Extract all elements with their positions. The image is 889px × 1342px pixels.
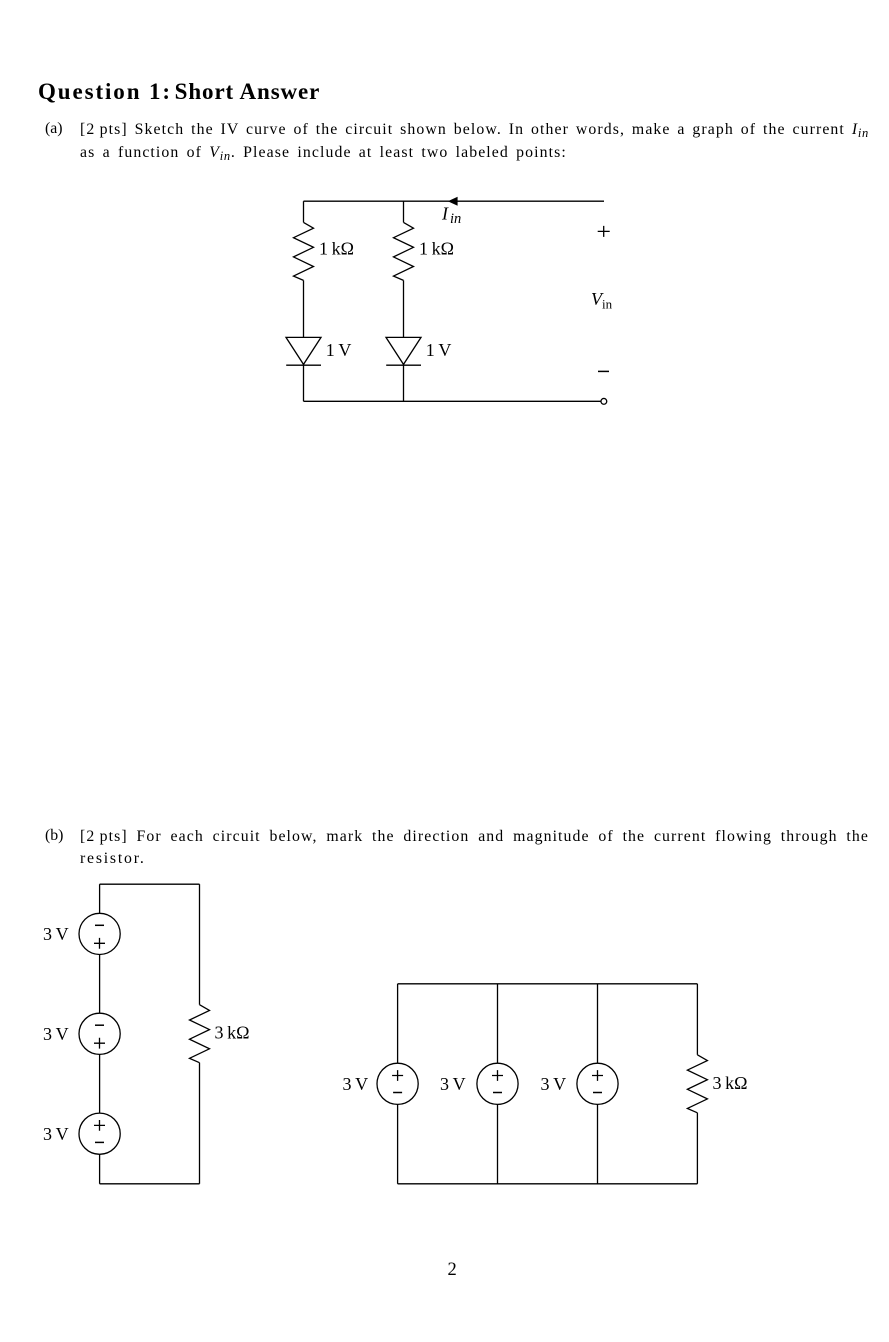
voltage source V1 circle <box>79 913 120 954</box>
wire: circuit3 branch2 upper <box>497 984 499 1063</box>
label V4 minus sign <box>393 1092 402 1094</box>
diode D1 cathode bar <box>286 364 321 366</box>
svg-text:3 kΩ: 3 kΩ <box>215 1023 250 1043</box>
item (a) label <box>45 120 63 138</box>
svg-text:Iin: Iin <box>441 204 461 228</box>
wire: circuit3 branch1 lower <box>397 1104 399 1183</box>
wire: circuit1 left branch upper stub <box>303 201 305 222</box>
wire: circuit1 left branch middle <box>303 280 305 337</box>
wire: circuit2 between V1 V2 <box>99 955 101 1014</box>
voltage source V6 circle <box>577 1063 618 1104</box>
svg-text:3 V: 3 V <box>43 924 69 944</box>
voltage source V2 circle <box>79 1013 120 1054</box>
label V2 plus sign <box>94 1038 105 1049</box>
wire: circuit2 right upper <box>199 884 201 1005</box>
wire: circuit3 branch3 upper <box>597 984 599 1063</box>
svg-text:3 V: 3 V <box>541 1074 567 1094</box>
wire: circuit1 left branch lower <box>303 364 305 401</box>
label V6 minus sign <box>593 1092 602 1094</box>
wire: circuit2 left lower stub <box>99 1154 101 1184</box>
voltage source V3 circle <box>79 1113 120 1154</box>
wire: circuit3 branch4 upper <box>696 984 698 1055</box>
wire: circuit1 right branch upper stub <box>403 201 405 222</box>
label V5 plus sign <box>492 1070 503 1081</box>
wire: circuit2 right lower <box>199 1063 201 1184</box>
terminal: open circle Vin negative <box>601 398 607 404</box>
diode D2 triangle <box>386 337 421 364</box>
label V2 minus sign <box>95 1024 104 1026</box>
wire: circuit1 bottom bus <box>304 400 602 402</box>
svg-text:3 V: 3 V <box>43 1024 69 1044</box>
item (b) label <box>45 827 63 845</box>
svg-text:1 V: 1 V <box>326 340 352 360</box>
svg-text:3 V: 3 V <box>440 1074 466 1094</box>
label V6 plus sign <box>592 1070 603 1081</box>
current arrow Iin <box>448 197 458 206</box>
wire: circuit3 bottom bus <box>398 1183 698 1185</box>
item (a) text <box>80 119 869 164</box>
wire: circuit3 top bus <box>398 983 698 985</box>
label V1 plus sign <box>94 938 105 949</box>
resistor R3 3kOhm <box>190 1005 210 1063</box>
label plus sign Vin <box>598 226 610 237</box>
label V1 minus sign <box>95 924 104 926</box>
voltage source V5 circle <box>477 1063 518 1104</box>
label V3 plus sign <box>94 1120 105 1131</box>
wire: circuit2 between V2 V3 <box>99 1054 101 1113</box>
label V3 minus sign <box>95 1141 104 1143</box>
svg-text:1 kΩ: 1 kΩ <box>419 239 454 259</box>
wire: circuit1 top bus <box>304 200 605 202</box>
wire: circuit3 branch3 lower <box>597 1104 599 1183</box>
svg-text:1 V: 1 V <box>426 340 452 360</box>
wire: circuit2 top bus <box>100 883 200 885</box>
wire: circuit1 right branch middle <box>403 280 405 337</box>
wire: circuit3 branch4 lower <box>696 1113 698 1184</box>
resistor R2 1kOhm <box>394 222 414 280</box>
wire: circuit3 branch1 upper <box>397 984 399 1063</box>
svg-text:3 V: 3 V <box>43 1124 69 1144</box>
diode D2 cathode bar <box>386 364 421 366</box>
wire: circuit3 branch2 lower <box>497 1104 499 1183</box>
item (b) text <box>80 826 869 871</box>
diode D1 triangle <box>286 337 321 364</box>
svg-text:3 kΩ: 3 kΩ <box>713 1073 748 1093</box>
section heading <box>38 79 320 105</box>
resistor R4 3kOhm <box>687 1055 707 1113</box>
label V5 minus sign <box>493 1092 502 1094</box>
svg-text:3 V: 3 V <box>343 1074 369 1094</box>
label V4 plus sign <box>392 1070 403 1081</box>
svg-text:Vin: Vin <box>591 289 613 312</box>
voltage source V4 circle <box>377 1063 418 1104</box>
wire: circuit2 bottom bus <box>100 1183 200 1185</box>
wire: circuit1 right branch lower <box>403 364 405 401</box>
page number <box>448 1260 457 1281</box>
resistor R1 1kOhm <box>294 222 314 280</box>
label minus sign Vin <box>598 370 609 372</box>
svg-text:1 kΩ: 1 kΩ <box>319 239 354 259</box>
wire: circuit2 left upper stub <box>99 884 101 913</box>
